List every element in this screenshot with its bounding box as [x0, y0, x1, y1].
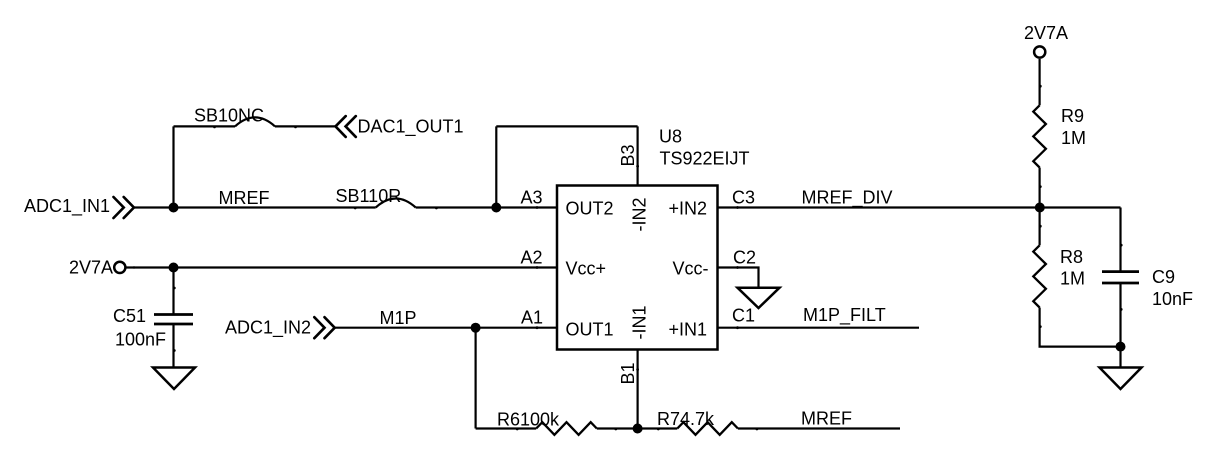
power port 2V7A top	[1024, 23, 1068, 58]
node MREF_DIV junction	[1035, 203, 1045, 213]
wire R9 to junction	[1038, 168, 1040, 208]
svg-text:C51: C51	[113, 306, 146, 326]
wire 2V7A to R9	[1038, 59, 1040, 105]
wire C9 top	[1119, 208, 1121, 272]
wire M1P	[335, 327, 557, 329]
svg-text:-IN1: -IN1	[630, 305, 650, 339]
wire to C51	[172, 268, 174, 315]
port ADC1_IN1	[24, 196, 134, 218]
svg-text:TS922EIJT: TS922EIJT	[660, 149, 750, 169]
svg-text:R8: R8	[1060, 247, 1083, 267]
wire MREF_DIV	[718, 206, 1121, 208]
svg-text:R9: R9	[1061, 106, 1084, 126]
svg-text:Vcc-: Vcc-	[673, 259, 709, 279]
wire bottom middle	[597, 427, 678, 429]
resistor R6	[497, 410, 597, 435]
wire M1P_FILT	[718, 327, 920, 329]
svg-text:10nF: 10nF	[1152, 289, 1193, 309]
wire top branch left	[174, 125, 236, 127]
wire feedback vertical	[495, 126, 497, 207]
svg-text:R6100k: R6100k	[497, 410, 560, 430]
svg-text:B3: B3	[618, 144, 638, 166]
svg-text:MREF_DIV: MREF_DIV	[802, 188, 893, 209]
svg-text:M1P: M1P	[380, 308, 417, 328]
svg-text:1M: 1M	[1060, 269, 1085, 289]
node MREF junction at ADC1_IN1	[169, 203, 179, 213]
svg-text:C9: C9	[1152, 267, 1175, 287]
node B1 junction	[633, 424, 643, 434]
svg-text:SB10NC: SB10NC	[194, 106, 264, 126]
svg-text:M1P_FILT: M1P_FILT	[803, 305, 886, 326]
ground at Vcc-	[738, 288, 780, 308]
svg-text:1M: 1M	[1061, 128, 1086, 148]
svg-text:B1: B1	[618, 362, 638, 384]
port ADC1_IN2	[225, 317, 335, 338]
wire Vcc+ row	[125, 266, 557, 268]
wire C51 to ground	[172, 324, 174, 368]
pin end dots	[133, 85, 1123, 431]
wire C9 bottom	[1119, 283, 1121, 347]
wire pin B1	[636, 350, 638, 429]
svg-text:SB110R: SB110R	[336, 186, 402, 206]
node feedback junction	[491, 203, 501, 213]
resistor R7	[657, 409, 738, 435]
svg-text:ADC1_IN1: ADC1_IN1	[24, 196, 110, 217]
svg-text:OUT1: OUT1	[566, 320, 614, 340]
capacitor C9	[1102, 267, 1193, 309]
svg-text:R74.7k: R74.7k	[657, 409, 715, 429]
svg-text:100nF: 100nF	[115, 330, 166, 350]
capacitor C51	[113, 306, 193, 350]
svg-text:Vcc+: Vcc+	[566, 259, 607, 279]
wire feedback horizontal	[496, 125, 637, 127]
op-amp U8 body	[557, 186, 718, 350]
svg-text:A3: A3	[520, 188, 542, 208]
svg-text:U8: U8	[659, 127, 682, 147]
svg-text:2V7A: 2V7A	[1024, 23, 1068, 43]
wire pin B3	[636, 126, 638, 185]
svg-text:+IN1: +IN1	[669, 320, 708, 340]
svg-text:C1: C1	[732, 306, 755, 326]
wire MREF horizontal right of SB11	[416, 206, 557, 208]
resistor R8	[1033, 245, 1085, 307]
solder bridge SB11 (0R)	[376, 199, 416, 208]
solder bridge SB10 (NC)	[235, 117, 275, 126]
svg-text:MREF: MREF	[801, 409, 852, 429]
svg-text:C3: C3	[732, 188, 755, 208]
wire vertical to top branch	[172, 126, 174, 207]
ground under C51	[153, 368, 195, 390]
svg-text:MREF: MREF	[219, 188, 270, 208]
wire R8 to bottom	[1040, 308, 1121, 347]
svg-text:A2: A2	[520, 248, 542, 268]
wire bottom left	[476, 427, 537, 429]
resistor R9	[1033, 105, 1086, 167]
svg-text:-IN2: -IN2	[630, 197, 650, 231]
wire Vcc- stub	[718, 268, 759, 288]
node ground junction	[1116, 342, 1126, 352]
wire bottom MREF	[738, 427, 900, 429]
svg-text:ADC1_IN2: ADC1_IN2	[225, 318, 311, 339]
wire MREF horizontal left	[134, 206, 376, 208]
svg-text:C2: C2	[733, 248, 756, 268]
wire to ground	[1119, 347, 1121, 368]
svg-text:+IN2: +IN2	[669, 199, 708, 219]
ground right	[1100, 368, 1142, 390]
wire top branch right	[275, 125, 336, 127]
wire M1P vertical drop	[475, 328, 477, 429]
node M1P junction	[471, 323, 481, 333]
svg-text:DAC1_OUT1: DAC1_OUT1	[358, 117, 464, 138]
wire junction to R8	[1038, 208, 1040, 246]
node 2V7A junction	[169, 263, 179, 273]
port DAC1_OUT1	[336, 116, 464, 137]
svg-text:2V7A: 2V7A	[69, 258, 113, 278]
svg-text:OUT2: OUT2	[566, 199, 614, 219]
power port 2V7A left	[69, 258, 125, 278]
svg-text:A1: A1	[521, 308, 543, 328]
